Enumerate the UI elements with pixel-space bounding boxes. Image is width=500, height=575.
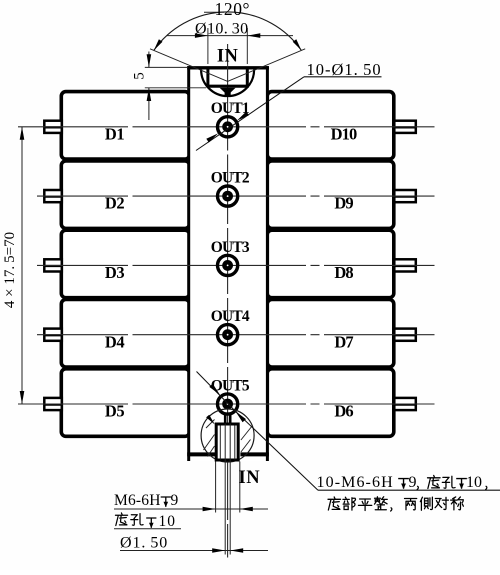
svg-text:IN: IN [239,468,261,488]
svg-text:D4: D4 [105,332,124,351]
svg-text:OUT3: OUT3 [211,239,250,256]
svg-text:D9: D9 [334,194,353,213]
svg-text:D1: D1 [105,124,124,143]
svg-text:5: 5 [132,72,148,80]
svg-text:Ø1. 50: Ø1. 50 [120,535,168,552]
svg-text:D6: D6 [334,402,353,421]
svg-text:4 × 17. 5=70: 4 × 17. 5=70 [2,232,18,308]
svg-text:IN: IN [217,46,239,66]
svg-text:OUT2: OUT2 [211,170,250,187]
svg-text:M6-6H: M6-6H [114,492,161,509]
svg-text:10-Ø1. 50: 10-Ø1. 50 [307,60,382,79]
svg-text:Ø10. 30: Ø10. 30 [195,21,249,38]
svg-text:9: 9 [409,474,417,491]
svg-text:D3: D3 [105,263,124,282]
svg-text:120°: 120° [215,0,251,19]
svg-text:D2: D2 [105,194,124,213]
svg-text:9: 9 [171,492,179,509]
svg-text:10: 10 [466,474,482,491]
svg-text:D5: D5 [105,402,124,421]
svg-text:OUT4: OUT4 [211,308,250,325]
svg-text:10-M6-6H: 10-M6-6H [317,474,394,491]
svg-text:D10: D10 [331,124,357,143]
svg-text:10: 10 [159,513,177,530]
svg-text:D8: D8 [334,263,353,282]
svg-text:D7: D7 [334,332,353,351]
